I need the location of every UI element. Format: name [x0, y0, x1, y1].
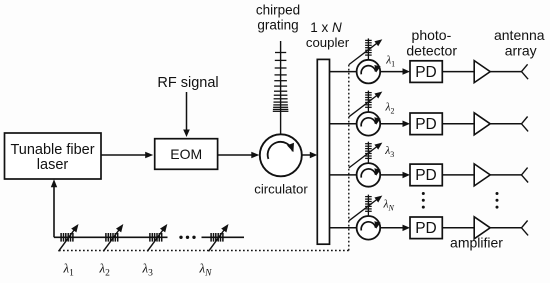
- svg-text:grating: grating: [257, 18, 298, 33]
- svg-text:RF signal: RF signal: [157, 75, 218, 91]
- wire amplifier to antenna row 4: [490, 227, 521, 229]
- bottom fiber wire segment 2: [202, 236, 245, 238]
- ellipsis dots amplifier column: [496, 192, 499, 195]
- circulator U4 row 2: [357, 112, 381, 136]
- RF arrow: [186, 92, 188, 131]
- svg-text:1 x N: 1 x N: [310, 20, 342, 35]
- photodetector PD1: [410, 61, 442, 83]
- svg-text:photo-: photo-: [412, 27, 452, 43]
- amplifier A3: [474, 164, 490, 186]
- wire circulator to PD row 4: [380, 227, 404, 229]
- svg-text:antenna: antenna: [494, 27, 545, 43]
- wire coupler to circulator row 2: [330, 123, 357, 125]
- wire amplifier to antenna row 1: [490, 71, 521, 73]
- svg-text:EOM: EOM: [170, 146, 202, 162]
- wire PD to amplifier row 2: [442, 123, 474, 125]
- wire amplifier to antenna row 2: [490, 123, 521, 125]
- bottom fiber wire segment 1: [54, 236, 168, 238]
- svg-text:chirped: chirped: [256, 3, 300, 18]
- svg-text:PD: PD: [415, 64, 437, 81]
- tuning arrow row 3: [349, 147, 377, 168]
- wire coupler to circulator row 1: [330, 71, 357, 73]
- tunable grating row 2: [367, 91, 369, 112]
- chirped grating FBG0: [280, 41, 282, 134]
- fiber grating G2: [105, 233, 107, 242]
- antenna ANT3: [522, 168, 528, 175]
- ellipsis dots bottom fiber: [179, 236, 182, 239]
- circulator U6 row 4: [357, 216, 381, 240]
- tuning arrow row 4: [349, 199, 377, 220]
- svg-text:Tunable fiber: Tunable fiber: [10, 142, 94, 158]
- tuning arrow row 2: [349, 95, 377, 116]
- svg-text:detector: detector: [406, 43, 457, 59]
- tunable grating row 4: [367, 195, 369, 216]
- wire coupler to circulator row 4: [330, 227, 357, 229]
- circulator U2: [260, 134, 302, 176]
- wire EOM to circulator: [218, 154, 254, 156]
- antenna ANT4: [522, 221, 528, 228]
- wire PD to amplifier row 1: [442, 71, 474, 73]
- amplifier A4: [474, 217, 490, 239]
- wire circulator to PD row 3: [380, 174, 404, 176]
- antenna ANT2: [522, 117, 528, 124]
- fiber grating G4: [210, 233, 212, 242]
- antenna ANT1: [522, 64, 528, 71]
- circulator U5 row 3: [357, 163, 381, 187]
- wire PD to amplifier row 4: [442, 227, 474, 229]
- wire circulator to PD row 2: [380, 123, 404, 125]
- tunable grating row 3: [367, 142, 369, 163]
- tuning arrow G1: [59, 228, 76, 251]
- svg-text:PD: PD: [415, 116, 437, 133]
- ellipsis dots PD column: [422, 192, 425, 195]
- svg-text:coupler: coupler: [306, 35, 350, 50]
- tuning arrow row 1: [349, 43, 377, 64]
- laser box U1: [5, 133, 102, 179]
- photodetector PD4: [410, 217, 442, 239]
- tuning arrow G3: [147, 228, 164, 251]
- tuning arrow G4: [209, 228, 226, 251]
- dotted control line: [59, 250, 349, 252]
- svg-text:array: array: [505, 43, 537, 59]
- coupler 1xN: [317, 59, 329, 244]
- svg-text:laser: laser: [37, 157, 69, 173]
- svg-text:PD: PD: [415, 220, 437, 237]
- wire laser to EOM: [101, 154, 147, 156]
- wire circulator to coupler: [302, 154, 312, 156]
- svg-text:circulator: circulator: [254, 182, 308, 197]
- feedback arrow to laser: [53, 185, 55, 238]
- fiber grating G3: [149, 233, 151, 242]
- tuning arrow G2: [103, 228, 120, 251]
- tunable grating row 1: [367, 38, 369, 59]
- wire circulator to PD row 1: [380, 71, 404, 73]
- fiber grating G1: [60, 233, 62, 242]
- photodetector PD2: [410, 113, 442, 135]
- EOM box: [155, 139, 218, 170]
- amplifier A1: [474, 61, 490, 83]
- svg-text:amplifier: amplifier: [450, 235, 503, 251]
- circulator U3 row 1: [357, 60, 381, 84]
- svg-text:PD: PD: [415, 167, 437, 184]
- photodetector PD3: [410, 164, 442, 186]
- wire amplifier to antenna row 3: [490, 174, 521, 176]
- amplifier A2: [474, 113, 490, 135]
- wire PD to amplifier row 3: [442, 174, 474, 176]
- wire coupler to circulator row 3: [330, 174, 357, 176]
